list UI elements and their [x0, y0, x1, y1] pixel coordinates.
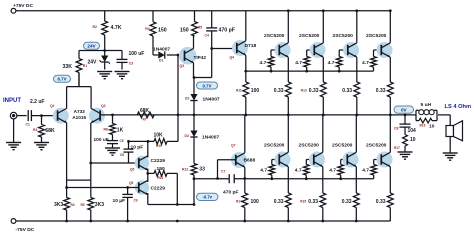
resistor 100 bottom driver	[236, 193, 259, 221]
wire Q4 emitter	[245, 55, 247, 82]
svg-text:C2229: C2229	[151, 158, 166, 164]
svg-text:C1: C1	[26, 123, 30, 127]
svg-text:D718: D718	[245, 43, 257, 49]
wire C1 to Q1 base	[31, 114, 54, 117]
svg-text:R5: R5	[81, 203, 85, 207]
resistor R3 68K	[33, 116, 55, 142]
resistor R11 150	[148, 166, 178, 180]
svg-text:4.7: 4.7	[295, 60, 302, 66]
resistor 4.7 top #4	[362, 50, 381, 71]
wire 2SC5200 top #1 collector	[287, 9, 290, 42]
svg-text:C5: C5	[120, 139, 124, 143]
svg-text:3K3: 3K3	[54, 202, 63, 208]
resistor 0.33 top #1	[274, 82, 291, 115]
wire 2SC5200 top #2 collector	[322, 9, 325, 42]
transistor 2SC5200 top #2	[299, 33, 326, 58]
wire 2SC5200 bottom #1 collector	[287, 115, 289, 152]
capacitor C6 10pF	[120, 141, 143, 163]
svg-text:1K: 1K	[117, 127, 124, 133]
wire input ground stem	[13, 119, 15, 142]
wire collector bridge	[67, 179, 91, 181]
svg-text:4.7: 4.7	[328, 60, 335, 66]
svg-text:A1015: A1015	[72, 115, 86, 120]
svg-text:-0.7v: -0.7v	[202, 195, 212, 200]
resistor R2 4.7K	[93, 11, 122, 51]
svg-text:C3: C3	[129, 62, 133, 66]
resistor 4.7 bottom #2	[295, 160, 314, 179]
wire Q5 emitter Q6 collector	[146, 169, 149, 183]
resistor 4.7 top #1	[260, 50, 280, 71]
svg-text:R11: R11	[158, 176, 164, 180]
svg-text:Q5: Q5	[130, 168, 134, 172]
svg-text:1N4007: 1N4007	[202, 135, 219, 141]
svg-text:R4: R4	[71, 203, 75, 207]
node 0V label	[394, 106, 414, 113]
capacitor C4 470pF	[205, 11, 235, 78]
resistor 4.7 top #2	[295, 50, 314, 71]
transistor Q2 A1015	[89, 104, 106, 124]
wire R11 drop	[176, 173, 178, 204]
transistor Q6 C2229	[129, 180, 165, 194]
svg-text:4.7: 4.7	[329, 168, 336, 174]
wire output rail	[100, 114, 450, 117]
resistor R5 150	[180, 11, 202, 36]
capacitor C3 100uF	[117, 51, 145, 70]
svg-text:150: 150	[158, 28, 167, 34]
svg-text:2SC5200: 2SC5200	[332, 142, 353, 148]
transistor Q1 A733	[50, 104, 69, 124]
svg-text:0.33: 0.33	[376, 199, 386, 205]
svg-text:-75V DC: -75V DC	[16, 227, 35, 233]
svg-text:100: 100	[251, 199, 260, 205]
node 24V label	[84, 42, 100, 49]
node -0.7V label	[197, 193, 219, 200]
wire 2SC5200 bottom #2 emitter	[322, 167, 324, 193]
svg-text:R6: R6	[104, 127, 108, 131]
wire TIP42 emitter up	[194, 36, 195, 49]
svg-text:D1: D1	[159, 59, 163, 63]
svg-text:R1: R1	[83, 64, 87, 68]
svg-text:4.7: 4.7	[362, 60, 369, 66]
svg-text:INPUT: INPUT	[3, 98, 21, 104]
svg-text:1N4007: 1N4007	[153, 46, 170, 52]
resistor 100 top driver	[236, 82, 259, 115]
svg-text:4.7: 4.7	[260, 168, 267, 174]
wire Q4 base	[210, 47, 237, 50]
resistor 0.33 bottom #4	[376, 193, 393, 221]
svg-text:D2: D2	[185, 97, 189, 101]
svg-text:0.33: 0.33	[342, 199, 352, 205]
svg-text:470 pF: 470 pF	[219, 27, 235, 33]
wire C6 R10 link	[127, 140, 154, 143]
capacitor C8 104	[394, 115, 416, 135]
svg-text:150: 150	[157, 166, 165, 172]
svg-text:470 pF: 470 pF	[223, 189, 239, 195]
wire bottom base rail	[194, 177, 374, 180]
resistor 0.33 top #2	[301, 82, 326, 115]
transistor Q4 D718	[230, 40, 257, 60]
svg-text:0.33: 0.33	[308, 199, 318, 205]
resistor 4.7 bottom #4	[362, 160, 381, 179]
svg-text:C7: C7	[221, 170, 225, 174]
ground below speaker	[443, 153, 458, 160]
transistor Q5 C2229	[130, 156, 165, 172]
wire Q7 emitter	[243, 167, 246, 193]
resistor R6 1K	[104, 115, 124, 140]
wire 2SC5200 top #4 collector	[389, 9, 392, 42]
capacitor C7 470pF	[221, 170, 239, 196]
svg-text:0.33: 0.33	[342, 88, 352, 94]
ground below C3	[115, 72, 130, 79]
wire 2SC5200 top #3 collector	[355, 9, 358, 42]
svg-text:24V: 24V	[87, 44, 96, 49]
wire 24V node	[79, 49, 122, 52]
wire 2SC5200 top #3 emitter	[356, 57, 358, 82]
svg-text:5 uH: 5 uH	[421, 102, 432, 108]
ground below input terminal	[6, 143, 21, 150]
wire 2SC5200 bottom #2 collector	[322, 115, 324, 152]
wire 2SC5200 bottom #3 emitter	[355, 167, 357, 193]
svg-text:68K: 68K	[45, 128, 55, 134]
speaker LS	[446, 115, 463, 153]
svg-text:B688: B688	[244, 158, 256, 164]
svg-text:LS 4 Ohm: LS 4 Ohm	[445, 104, 472, 110]
svg-text:R17: R17	[394, 146, 400, 150]
transistor 2SC5200 bottom #4	[366, 142, 393, 167]
wire Q6 emitter	[148, 193, 194, 206]
diode D2 1N4007	[185, 78, 220, 115]
svg-text:Q1: Q1	[50, 104, 55, 108]
wire Q4 collector	[245, 11, 247, 41]
wire 2SC5200 bottom #3 collector	[355, 115, 357, 152]
svg-text:4.7: 4.7	[295, 168, 302, 174]
svg-text:10K: 10K	[154, 132, 164, 138]
svg-text:C4: C4	[205, 34, 209, 38]
resistor 0.33 top #4	[376, 82, 393, 115]
svg-text:0.33: 0.33	[274, 88, 284, 94]
svg-text:6.7V: 6.7V	[57, 77, 66, 82]
diode D1 1N4007	[153, 46, 185, 62]
resistor R17 10	[394, 135, 416, 152]
transistor 2SC5200 bottom #3	[332, 142, 359, 167]
capacitor C5 100uF	[94, 137, 124, 148]
resistor R7 68K	[137, 108, 154, 122]
resistor 4.7 bottom #3	[329, 160, 347, 179]
svg-text:4.7: 4.7	[362, 168, 369, 174]
svg-text:D3: D3	[185, 134, 189, 138]
svg-text:2SC5200: 2SC5200	[333, 33, 354, 39]
svg-text:R2: R2	[93, 25, 97, 29]
svg-text:Q3: Q3	[180, 64, 185, 68]
wire Q2 collector column	[90, 123, 92, 198]
svg-text:R16: R16	[420, 124, 426, 128]
wire 2SC5200 top #2 emitter	[322, 57, 324, 82]
resistor 0.33 bottom #2	[300, 193, 325, 221]
svg-text:10: 10	[410, 137, 416, 143]
svg-text:TIP42: TIP42	[194, 55, 207, 60]
wire bottom -75V rail	[16, 220, 390, 223]
svg-text:2SC5200: 2SC5200	[299, 142, 320, 148]
wire R10 riser	[177, 115, 179, 141]
node 6.7V label	[54, 75, 71, 82]
node 0.7V label	[197, 82, 218, 89]
resistor 0.33 bottom #1	[274, 193, 291, 221]
label A733 A1015	[72, 109, 86, 120]
wire 2SC5200 bottom #1 emitter	[287, 167, 289, 193]
power terminal +75V DC	[11, 3, 33, 13]
wire Q6 base line	[67, 186, 139, 189]
ground below C5	[105, 148, 120, 155]
svg-text:100 uF: 100 uF	[94, 137, 109, 143]
wire Q5 base	[89, 162, 138, 165]
svg-text:R5: R5	[198, 26, 202, 30]
input terminal	[10, 112, 26, 119]
svg-text:68K: 68K	[140, 108, 150, 114]
svg-text:100: 100	[251, 88, 260, 94]
resistor R10 10K	[154, 132, 179, 148]
svg-text:Q7: Q7	[231, 144, 236, 148]
svg-text:4.7K: 4.7K	[111, 25, 122, 31]
svg-text:10: 10	[429, 123, 435, 129]
svg-text:100 uF: 100 uF	[129, 51, 145, 57]
resistor R16 10	[416, 115, 437, 129]
capacitor C9 10uF	[113, 188, 138, 222]
svg-text:R15: R15	[300, 200, 306, 204]
svg-text:2SC5200: 2SC5200	[264, 33, 285, 39]
label LS 4 Ohm	[445, 104, 472, 110]
svg-text:Q4: Q4	[230, 56, 235, 60]
wire emitter tail	[67, 73, 92, 109]
ground below R3	[34, 143, 49, 150]
svg-text:C8: C8	[394, 127, 398, 131]
svg-text:R13: R13	[301, 89, 307, 93]
svg-text:Q6: Q6	[129, 181, 133, 185]
svg-text:3K3: 3K3	[95, 202, 104, 208]
wire top +75V rail	[16, 10, 390, 12]
svg-text:2SC5200: 2SC5200	[264, 142, 285, 148]
svg-text:R3: R3	[33, 128, 37, 132]
svg-text:24V: 24V	[88, 59, 98, 65]
wire Q7 collector	[244, 115, 246, 153]
svg-text:Q2: Q2	[101, 104, 106, 108]
wire Q1 collector column	[65, 123, 68, 198]
svg-text:R11: R11	[236, 89, 242, 93]
svg-text:C2229: C2229	[151, 186, 166, 192]
transistor 2SC5200 bottom #2	[299, 142, 326, 167]
svg-text:0.33: 0.33	[309, 88, 319, 94]
transistor Q7 B688	[231, 144, 255, 169]
svg-text:0.7V: 0.7V	[202, 83, 211, 88]
svg-text:R7: R7	[143, 118, 147, 122]
wire R12 to -0.7V node	[193, 175, 196, 206]
svg-text:2SC5200: 2SC5200	[299, 33, 320, 39]
svg-text:104: 104	[408, 128, 417, 134]
power terminal -75V DC	[11, 219, 35, 233]
svg-text:10 pF: 10 pF	[131, 144, 144, 150]
inductor L1 5uH	[416, 102, 437, 115]
svg-text:C6: C6	[120, 153, 124, 157]
transistor 2SC5200 top #4	[366, 33, 393, 58]
svg-text:2SC5200: 2SC5200	[366, 142, 387, 148]
svg-text:2.2 uF: 2.2 uF	[30, 99, 44, 105]
resistor R12 33	[182, 164, 205, 176]
svg-text:4.7: 4.7	[260, 60, 267, 66]
svg-text:2SC5200: 2SC5200	[366, 33, 387, 39]
transistor Q3 TIP42	[179, 47, 206, 68]
resistor 0.33 bottom #3	[342, 193, 359, 221]
svg-text:33K: 33K	[63, 64, 73, 70]
resistor 4.7 bottom #1	[260, 160, 279, 179]
zener diode D4 24V	[88, 51, 110, 70]
wire Q5 collector	[147, 141, 149, 157]
resistor 0.33 top #3	[342, 82, 359, 115]
svg-text:1N4007: 1N4007	[203, 96, 220, 102]
wire Q7 base	[216, 160, 236, 180]
svg-text:R4: R4	[145, 27, 149, 31]
resistor 4.7 top #3	[328, 50, 348, 71]
wire 2SC5200 top #1 emitter	[287, 57, 289, 82]
svg-text:R14: R14	[236, 200, 242, 204]
svg-text:0.33: 0.33	[376, 88, 386, 94]
resistor R9 3K3	[81, 198, 105, 222]
transistor 2SC5200 top #1	[264, 33, 291, 58]
label INPUT	[3, 98, 21, 104]
svg-text:33: 33	[199, 167, 205, 173]
svg-text:10 µF: 10 µF	[113, 198, 126, 204]
svg-text:R12: R12	[182, 168, 188, 172]
wire 2SC5200 bottom #4 emitter	[389, 167, 391, 193]
capacitor C1 2.2uF	[26, 99, 45, 127]
wire TIP42 base riser	[177, 55, 179, 115]
wire top base rail	[244, 70, 373, 73]
svg-text:+75V DC: +75V DC	[13, 3, 33, 9]
svg-text:150: 150	[180, 28, 189, 34]
wire 2SC5200 top #4 emitter	[389, 57, 391, 82]
transistor 2SC5200 bottom #1	[264, 142, 291, 167]
svg-text:R10: R10	[156, 144, 162, 148]
ground below zener	[97, 72, 112, 79]
wire 2SC5200 bottom #4 collector	[389, 115, 391, 152]
svg-text:A733: A733	[74, 109, 86, 114]
wire TIP42 collector	[193, 63, 212, 79]
svg-text:0V: 0V	[401, 107, 408, 112]
svg-text:0.33: 0.33	[274, 199, 284, 205]
ground below R17	[398, 152, 413, 159]
diode D3 1N4007	[185, 115, 220, 164]
resistor R8 3K3	[54, 198, 75, 222]
resistor R4 150	[145, 11, 166, 55]
resistor R1 33K	[63, 51, 88, 87]
transistor 2SC5200 top #3	[333, 33, 360, 58]
svg-text:C9: C9	[134, 199, 138, 203]
